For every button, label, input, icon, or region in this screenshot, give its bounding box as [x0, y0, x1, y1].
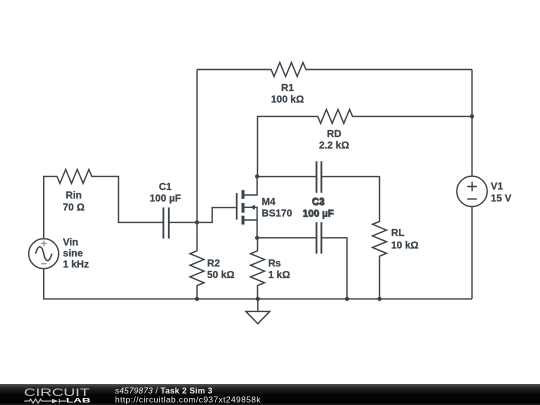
- svg-text:Rs: Rs: [268, 258, 281, 269]
- svg-text:1 kΩ: 1 kΩ: [268, 270, 290, 281]
- svg-text:BS170: BS170: [262, 208, 293, 219]
- svg-text:1 kHz: 1 kHz: [63, 260, 89, 271]
- svg-text:100 µF: 100 µF: [150, 193, 181, 204]
- svg-text:RL: RL: [391, 228, 404, 239]
- svg-text:C3: C3: [312, 197, 325, 208]
- svg-text:M4: M4: [262, 197, 276, 208]
- svg-text:100 µF: 100 µF: [303, 209, 334, 220]
- svg-text:2.2 kΩ: 2.2 kΩ: [319, 140, 349, 151]
- svg-text:R2: R2: [207, 258, 220, 269]
- svg-text:100 kΩ: 100 kΩ: [271, 95, 304, 106]
- svg-text:sine: sine: [63, 248, 83, 259]
- svg-text:R1: R1: [281, 83, 294, 94]
- svg-text:70 Ω: 70 Ω: [63, 202, 85, 213]
- svg-text:Rin: Rin: [66, 191, 82, 202]
- svg-text:V1: V1: [491, 182, 504, 193]
- svg-text:10 kΩ: 10 kΩ: [391, 240, 418, 251]
- svg-text:LAB: LAB: [66, 398, 91, 405]
- svg-text:50 kΩ: 50 kΩ: [207, 270, 234, 281]
- svg-text:Vin: Vin: [63, 237, 78, 248]
- svg-text:C1: C1: [159, 182, 172, 193]
- svg-text:http://circuitlab.com/c937xt24: http://circuitlab.com/c937xt249858k: [115, 395, 261, 405]
- svg-text:15 V: 15 V: [491, 194, 512, 205]
- svg-text:RD: RD: [327, 129, 341, 140]
